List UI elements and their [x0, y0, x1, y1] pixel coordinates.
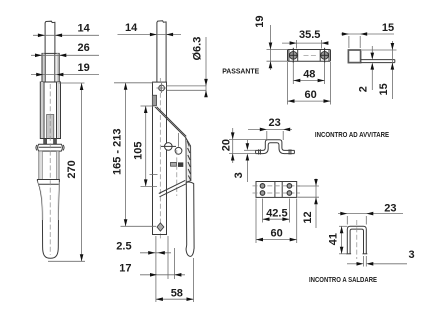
dimension 17 [119, 263, 185, 277]
dimension 105 [133, 106, 157, 186]
hook strip [186, 182, 194, 256]
svg-text:60: 60 [305, 89, 317, 101]
dimension 15 (top) [341, 22, 394, 48]
svg-text:58: 58 [171, 287, 183, 299]
rod (side) [157, 21, 166, 82]
channel centerline [356, 220, 358, 259]
svg-text:20: 20 [220, 139, 232, 151]
dimension 15 (right side) [362, 41, 397, 99]
side view: square loop [348, 50, 360, 63]
dimension 19 (passante height) [254, 15, 288, 70]
svg-text:19: 19 [78, 62, 90, 74]
svg-text:17: 17 [119, 263, 131, 275]
dimension 2.5 [116, 240, 171, 254]
dimension 270 [48, 83, 85, 261]
adjustment diamond [157, 223, 164, 231]
dimension 19 (left view) [31, 62, 99, 76]
svg-text:15: 15 [382, 22, 394, 34]
dimension 60 (passante) [288, 62, 331, 105]
lever dashed line [176, 150, 178, 196]
lock body housing [40, 82, 60, 139]
hole O6.3 [157, 83, 167, 93]
svg-text:PASSANTE: PASSANTE [222, 68, 259, 75]
svg-text:23: 23 [269, 117, 281, 129]
dimension 42.5 [263, 199, 290, 223]
spring clip parts [171, 162, 184, 167]
dimension 14 (left view) [33, 23, 99, 37]
svg-text:3: 3 [233, 172, 245, 178]
dimension 2 (flange thickness) [358, 46, 375, 92]
dimension 20 [220, 128, 267, 163]
mounting bracket with ears [36, 144, 64, 151]
svg-text:15: 15 [378, 83, 390, 95]
dimension 3 (saldare) [347, 249, 415, 266]
side view: flange [361, 60, 395, 63]
screw right [320, 48, 329, 63]
svg-text:35.5: 35.5 [299, 29, 320, 41]
bolt heads [40, 139, 61, 145]
svg-text:3: 3 [409, 249, 415, 261]
screw circle [175, 133, 182, 154]
break tick [150, 174, 158, 176]
dimension 60 (avvitare) [256, 199, 297, 244]
svg-text:2: 2 [358, 86, 370, 92]
dimension 12 [298, 179, 320, 229]
dimension 35.5 [282, 29, 328, 49]
dimension 165-213 [111, 83, 156, 227]
dimension 23 (avvitare) [248, 117, 292, 140]
dimension 58 [156, 287, 194, 301]
centerline (left view) [49, 84, 51, 255]
dimension 23 (saldare) [338, 203, 403, 225]
svg-text:Ø6.3: Ø6.3 [192, 37, 204, 61]
flat bar (side) [153, 78, 167, 240]
O6.3 leader and dimension [167, 37, 208, 98]
svg-text:60: 60 [271, 228, 283, 240]
svg-text:12: 12 [302, 211, 314, 223]
latch cover diagonal [155, 107, 188, 145]
bar bottom edge [153, 234, 167, 236]
upper guide housing [42, 53, 59, 82]
dimension 41 [328, 226, 348, 254]
bracket foot holes [259, 149, 291, 154]
screw seats [289, 50, 329, 62]
omega bracket profile [256, 140, 295, 154]
svg-text:2.5: 2.5 [116, 240, 131, 252]
svg-text:INCONTRO AD AVVITARE: INCONTRO AD AVVITARE [315, 132, 389, 139]
dimension 14 (middle view) [118, 22, 182, 36]
tapered handle [37, 180, 59, 259]
svg-text:14: 14 [78, 23, 91, 35]
handle grip collar [39, 151, 59, 179]
svg-text:42.5: 42.5 [266, 207, 287, 219]
slot (gray) on bar [152, 95, 156, 105]
svg-text:INCONTRO A SALDARE: INCONTRO A SALDARE [309, 277, 377, 284]
screw left [289, 48, 298, 63]
svg-text:26: 26 [78, 42, 90, 54]
U channel profile [346, 226, 367, 254]
dimension 3 (avvitare) [233, 140, 256, 182]
svg-text:48: 48 [303, 69, 315, 81]
rod (front) [45, 21, 55, 53]
svg-text:23: 23 [384, 203, 396, 215]
mounting plate (avvitare) [253, 182, 301, 198]
svg-text:165 - 213: 165 - 213 [111, 129, 123, 175]
svg-text:19: 19 [254, 15, 266, 27]
dimension 48 [293, 62, 324, 84]
dimension 26 [31, 42, 99, 57]
svg-text:270: 270 [66, 160, 78, 178]
plate holes (4) [260, 184, 292, 196]
svg-text:41: 41 [328, 233, 340, 245]
extension lines below bar [156, 236, 194, 302]
arm diagonals [159, 180, 187, 196]
hatched edge strip [186, 138, 191, 183]
svg-text:14: 14 [125, 22, 138, 34]
svg-text:105: 105 [133, 142, 145, 160]
keeper plate [288, 50, 331, 62]
pivot circle [161, 143, 176, 151]
